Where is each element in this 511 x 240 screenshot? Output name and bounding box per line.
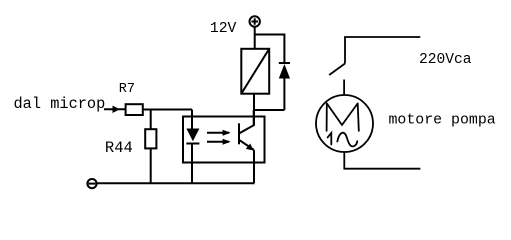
wire branch to diode cathode [255, 35, 285, 64]
phototransistor base bar [238, 123, 240, 144]
wire ground rail [97, 182, 255, 184]
wire input arrow lead [104, 108, 125, 110]
ground negative terminal [87, 179, 96, 188]
label 220Vca [419, 52, 472, 68]
wire diode anode to collector node [254, 109, 284, 111]
wire 220V top feed [345, 37, 420, 64]
motor sine wave mark [337, 133, 357, 147]
wire emitter to rail [253, 150, 255, 183]
relay coil K1 [241, 49, 269, 94]
wire LED anode vertical [191, 110, 193, 130]
optocoupler U1 body [183, 117, 265, 163]
wire R44 to ground rail [150, 149, 152, 183]
wire motor to 220V return [344, 153, 420, 169]
label 12V [210, 21, 237, 37]
svg-text:dal microp: dal microp [14, 95, 106, 113]
phototransistor emitter [239, 140, 254, 150]
wire R7 to LED anode [144, 109, 193, 111]
relay contact switch blade [329, 64, 345, 76]
wire coil bottom to collector [253, 95, 255, 126]
wire node junction to R44 [150, 110, 152, 129]
motor letter M [327, 103, 359, 130]
svg-text:motore pompa: motore pompa [389, 112, 496, 128]
resistor R44 [145, 129, 156, 148]
wire diode anode down [283, 79, 285, 111]
label motore pompa [389, 112, 496, 128]
motor M1 body [316, 95, 373, 152]
opto light arrow lower [207, 139, 231, 145]
emitter arrowhead [246, 144, 254, 151]
LED diode anode triangle [186, 129, 199, 142]
phototransistor collector [239, 110, 254, 134]
supply positive terminal [250, 16, 260, 26]
resistor R7 [126, 104, 143, 115]
wire 12V to coil top [254, 27, 256, 48]
svg-text:R7: R7 [119, 82, 135, 97]
input arrowhead [113, 106, 121, 113]
LED cathode bar [186, 143, 199, 145]
diode D1 cathode bar [279, 62, 290, 64]
label R44 [105, 139, 133, 157]
label R7 [119, 82, 135, 97]
svg-text:220Vca: 220Vca [419, 52, 472, 68]
opto light arrow upper [207, 130, 231, 136]
svg-text:12V: 12V [210, 21, 237, 37]
svg-text:R44: R44 [105, 139, 133, 157]
wire LED cathode to rail [191, 144, 193, 184]
label "dal microp" [14, 95, 106, 113]
wire switch to motor [343, 80, 345, 95]
diode D1 triangle [279, 64, 290, 79]
motor phase mark 1 [328, 133, 332, 145]
